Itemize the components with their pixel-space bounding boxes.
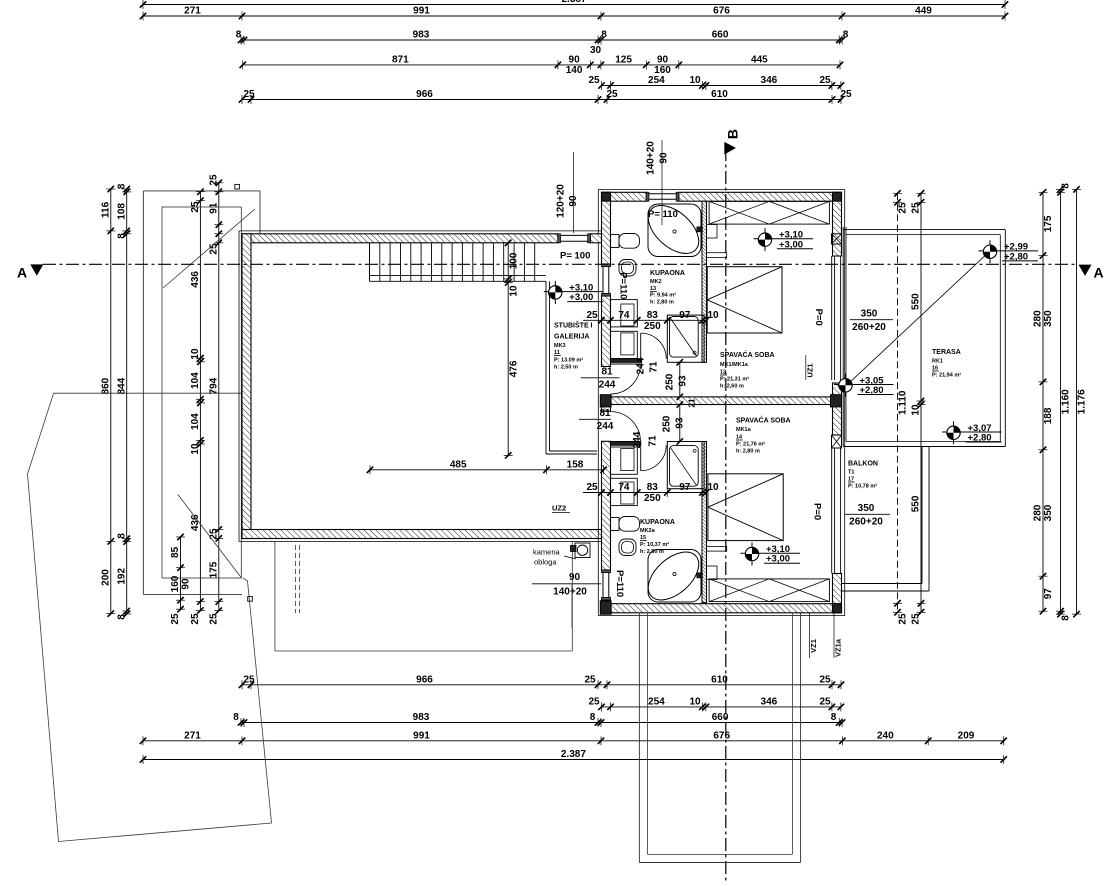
light fixture square xyxy=(575,543,590,558)
dresser lower xyxy=(707,566,718,580)
dim chain terrace 25/550/10/550/25 xyxy=(920,193,922,612)
hall dim lower 250/93 xyxy=(679,405,681,442)
svg-text:P= 100: P= 100 xyxy=(560,251,590,262)
svg-text:25: 25 xyxy=(208,174,219,186)
svg-text:UZ1: UZ1 xyxy=(806,363,815,377)
svg-text:445: 445 xyxy=(751,54,768,65)
svg-text:244: 244 xyxy=(599,380,616,391)
svg-text:280: 280 xyxy=(1033,504,1044,521)
cladding wing bottom xyxy=(598,615,844,617)
dim 485/158 xyxy=(370,469,604,471)
stone terrace outline xyxy=(274,541,276,651)
svg-text:25: 25 xyxy=(584,674,596,685)
svg-text:983: 983 xyxy=(413,30,430,41)
svg-text:+3,00: +3,00 xyxy=(766,554,790,565)
gallery top wall left part xyxy=(242,234,558,243)
gallery void edge xyxy=(545,281,547,454)
svg-text:188: 188 xyxy=(1043,407,1054,424)
svg-text:350: 350 xyxy=(1043,504,1054,521)
carport diagonal lower xyxy=(178,494,242,577)
svg-text:350: 350 xyxy=(861,309,878,320)
bathroom door lower (71) xyxy=(640,445,642,471)
svg-text:SPAVAĆA SOBA: SPAVAĆA SOBA xyxy=(736,416,791,425)
svg-text:71: 71 xyxy=(648,435,659,447)
svg-text:250: 250 xyxy=(665,373,676,390)
svg-text:346: 346 xyxy=(761,696,778,707)
UZ1 label xyxy=(805,355,807,380)
svg-text:93: 93 xyxy=(675,417,686,429)
svg-text:175: 175 xyxy=(208,561,219,578)
svg-text:250: 250 xyxy=(662,415,673,432)
svg-text:871: 871 xyxy=(392,54,409,65)
bathtub upper xyxy=(648,204,701,257)
svg-text:346: 346 xyxy=(761,75,778,86)
svg-text:25: 25 xyxy=(911,202,922,214)
svg-text:81: 81 xyxy=(599,408,611,419)
terrace inner xyxy=(846,234,1000,236)
svg-text:271: 271 xyxy=(184,6,201,17)
dresser upper xyxy=(707,225,718,239)
svg-text:116: 116 xyxy=(100,201,111,218)
svg-text:83: 83 xyxy=(647,482,659,493)
wing top wall left part xyxy=(602,192,647,201)
svg-text:10: 10 xyxy=(190,348,201,360)
svg-text:8: 8 xyxy=(1061,615,1072,621)
svg-text:30: 30 xyxy=(590,45,602,56)
svg-text:8: 8 xyxy=(116,614,127,620)
dim chain top row 25/966/25/610/25 xyxy=(242,99,841,101)
svg-text:25: 25 xyxy=(586,310,598,321)
svg-text:74: 74 xyxy=(618,482,630,493)
svg-text:25: 25 xyxy=(840,89,852,100)
svg-text:GALERIJA: GALERIJA xyxy=(554,334,589,341)
svg-text:10: 10 xyxy=(689,75,701,86)
party wall end block right xyxy=(831,395,842,407)
svg-text:158: 158 xyxy=(567,459,584,470)
svg-text:8: 8 xyxy=(843,30,849,41)
svg-text:1.176: 1.176 xyxy=(1077,389,1088,414)
svg-text:P: 21,94 m²: P: 21,94 m² xyxy=(932,372,961,379)
svg-text:TERASA: TERASA xyxy=(932,349,961,356)
svg-text:8: 8 xyxy=(116,233,127,239)
right wall glass door upper P=0 xyxy=(831,256,833,380)
svg-text:MK3: MK3 xyxy=(554,343,566,349)
elevation marker upper bedroom +3,10/+3,00 xyxy=(754,238,814,240)
svg-text:90: 90 xyxy=(569,54,581,65)
svg-text:P: 9,94 m²: P: 9,94 m² xyxy=(650,292,676,299)
svg-text:81: 81 xyxy=(601,367,613,378)
right wall crossed box lower xyxy=(832,435,842,448)
svg-text:254: 254 xyxy=(648,75,665,86)
bathtub lower xyxy=(648,550,701,603)
hall dim upper 250/93 xyxy=(679,362,681,397)
svg-text:P: 13.09 m²: P: 13.09 m² xyxy=(554,357,583,364)
svg-text:P: 21,76 m²: P: 21,76 m² xyxy=(736,441,765,448)
svg-text:90: 90 xyxy=(659,152,670,164)
svg-text:350: 350 xyxy=(1043,310,1054,327)
dim chain bottom row 8/983/8/660/8 xyxy=(241,722,842,724)
svg-text:25: 25 xyxy=(208,613,219,625)
elevation marker terrace top +2,99/+2,80 xyxy=(979,250,1039,252)
svg-text:h: 2,60 m: h: 2,60 m xyxy=(720,384,744,390)
svg-text:260+20: 260+20 xyxy=(852,322,886,333)
svg-text:8: 8 xyxy=(116,183,127,189)
svg-text:175: 175 xyxy=(1043,215,1054,232)
cladding wing right xyxy=(844,190,846,616)
svg-text:25: 25 xyxy=(819,696,831,707)
svg-text:991: 991 xyxy=(413,730,430,741)
svg-text:97: 97 xyxy=(679,482,691,493)
shower mixer square upper xyxy=(697,227,702,232)
wing bottom wall xyxy=(602,604,842,613)
svg-text:A: A xyxy=(17,264,27,280)
dim chain left 8/108/8/844/8/192/8 xyxy=(126,189,128,614)
svg-text:260+20: 260+20 xyxy=(849,517,883,528)
cladding wing left upper xyxy=(597,190,599,234)
dim chain top row 871/90/30/125/90/445 xyxy=(243,64,840,66)
svg-text:8: 8 xyxy=(601,30,607,41)
svg-text:10: 10 xyxy=(508,285,519,297)
svg-text:25: 25 xyxy=(586,482,598,493)
svg-text:8: 8 xyxy=(590,712,596,723)
wing left wall window lower P=110 xyxy=(602,570,604,600)
svg-text:25: 25 xyxy=(898,202,909,214)
driveway outer xyxy=(638,613,640,863)
svg-text:90: 90 xyxy=(657,54,669,65)
svg-text:25: 25 xyxy=(898,613,909,625)
wardrobe upper xyxy=(709,201,829,224)
svg-text:676: 676 xyxy=(713,6,730,17)
VZ1a label xyxy=(833,613,835,658)
svg-text:610: 610 xyxy=(711,89,728,100)
cladding line gallery top xyxy=(239,230,602,232)
dim chain bottom row 25/254/10/346/25 xyxy=(602,706,841,708)
dim chain bottom total 2.387 xyxy=(143,759,1004,761)
svg-text:A: A xyxy=(1094,265,1104,281)
svg-text:25: 25 xyxy=(606,89,618,100)
svg-text:+3,00: +3,00 xyxy=(569,292,593,303)
svg-text:P=0: P=0 xyxy=(811,503,822,520)
wing corner blocks xyxy=(602,192,611,201)
svg-text:8: 8 xyxy=(116,533,127,539)
svg-text:983: 983 xyxy=(413,712,430,723)
section marker A left xyxy=(30,264,43,275)
svg-text:794: 794 xyxy=(208,377,219,394)
svg-text:209: 209 xyxy=(958,730,975,741)
wing left wall window upper P=110 xyxy=(602,264,604,296)
svg-text:240: 240 xyxy=(877,730,894,741)
elevation marker terrace bottom +3,07/+2,80 xyxy=(942,431,1002,433)
wing top window xyxy=(646,193,679,195)
svg-text:100: 100 xyxy=(508,252,519,269)
svg-text:+2,80: +2,80 xyxy=(1004,251,1028,262)
dim chain right 175/350-280/188/350-280/97 xyxy=(1042,192,1044,611)
svg-text:1.160: 1.160 xyxy=(1061,389,1072,414)
svg-text:2.387: 2.387 xyxy=(561,749,586,760)
svg-text:436: 436 xyxy=(190,271,201,288)
section marker A right xyxy=(1079,265,1092,276)
svg-text:91: 91 xyxy=(208,202,219,214)
carport diagonal upper xyxy=(163,209,255,288)
survey marker square bottom xyxy=(248,597,253,602)
dim chain right 8/1.160/8 xyxy=(1060,189,1062,614)
site boundary xyxy=(28,394,272,842)
dim chain left 25/91/25/794/25/175/25 xyxy=(218,183,220,611)
dim chain bottom row 271/991/676/240/209 xyxy=(143,740,1004,742)
svg-text:90: 90 xyxy=(569,572,581,583)
svg-text:BALKON: BALKON xyxy=(848,461,878,468)
svg-text:83: 83 xyxy=(647,310,659,321)
shower upper xyxy=(667,315,704,362)
svg-text:550: 550 xyxy=(911,495,922,512)
svg-text:250: 250 xyxy=(644,493,661,504)
dim chain top total 2.387 xyxy=(143,4,1005,6)
svg-text:25: 25 xyxy=(819,674,831,685)
stair treads xyxy=(369,243,371,281)
gallery left wall xyxy=(242,234,251,539)
svg-text:991: 991 xyxy=(413,6,430,17)
svg-text:8: 8 xyxy=(236,30,242,41)
svg-text:10: 10 xyxy=(190,443,201,455)
svg-text:244: 244 xyxy=(632,431,643,448)
svg-text:25: 25 xyxy=(243,89,255,100)
svg-text:kamena: kamena xyxy=(533,548,561,557)
svg-text:h: 2,80 m: h: 2,80 m xyxy=(736,449,760,455)
cladding wing left lower (gallery east face) xyxy=(597,243,599,613)
lower bathroom dim 25/74/83/97/10 + 250 xyxy=(583,492,602,494)
svg-text:25: 25 xyxy=(208,528,219,540)
terrace diagonal xyxy=(847,251,991,385)
svg-text:71: 71 xyxy=(649,361,660,373)
svg-text:125: 125 xyxy=(615,54,632,65)
svg-text:UZ2: UZ2 xyxy=(552,504,566,513)
svg-text:280: 280 xyxy=(1033,310,1044,327)
entry door lower (81) xyxy=(611,441,641,443)
svg-text:85: 85 xyxy=(170,546,181,558)
bed lower xyxy=(708,474,783,541)
svg-text:1.110: 1.110 xyxy=(898,390,909,415)
bottom wall end block left xyxy=(600,601,611,614)
shower mixer square lower xyxy=(697,573,702,578)
cladding wing top xyxy=(598,189,844,191)
balcony edge xyxy=(921,447,923,584)
svg-text:KUPAONA: KUPAONA xyxy=(650,270,685,277)
gallery top wall right part xyxy=(590,234,601,243)
svg-text:966: 966 xyxy=(416,89,433,100)
cladding line gallery bottom xyxy=(239,540,602,542)
svg-text:25: 25 xyxy=(911,613,922,625)
svg-text:VZ1a: VZ1a xyxy=(834,638,843,657)
svg-text:25: 25 xyxy=(819,75,831,86)
svg-text:108: 108 xyxy=(116,203,127,220)
svg-text:MK1a: MK1a xyxy=(736,427,752,433)
svg-text:244: 244 xyxy=(597,421,614,432)
svg-text:8: 8 xyxy=(233,712,239,723)
lower bathroom north wall xyxy=(611,442,641,446)
VZ1 label xyxy=(809,613,811,658)
svg-text:250: 250 xyxy=(644,321,661,332)
dim chain top row 271/991/676/449 xyxy=(143,15,1005,17)
terrace outer xyxy=(843,229,1005,231)
section marker B flag xyxy=(724,142,736,155)
svg-text:485: 485 xyxy=(450,459,467,470)
svg-text:8: 8 xyxy=(831,712,837,723)
svg-text:860: 860 xyxy=(100,377,111,394)
shelf upper xyxy=(707,253,727,258)
svg-text:MK1/MK1a: MK1/MK1a xyxy=(720,362,749,368)
svg-text:VZ1: VZ1 xyxy=(809,639,818,653)
svg-text:h: 2,50 m: h: 2,50 m xyxy=(554,365,578,371)
svg-text:966: 966 xyxy=(416,674,433,685)
svg-text:SPAVAĆA SOBA: SPAVAĆA SOBA xyxy=(720,350,775,359)
sink lower xyxy=(619,539,636,556)
svg-text:+3,00: +3,00 xyxy=(779,239,803,250)
svg-text:P: 10,78 m²: P: 10,78 m² xyxy=(848,483,877,490)
bathroom door upper (71) xyxy=(640,333,642,359)
svg-text:KUPAONA: KUPAONA xyxy=(640,519,675,526)
wing top wall right part xyxy=(679,192,842,201)
dim chain right 1.176 xyxy=(1076,189,1078,614)
svg-text:10: 10 xyxy=(911,404,922,416)
svg-text:MK2a: MK2a xyxy=(640,528,656,534)
svg-text:10: 10 xyxy=(689,696,701,707)
svg-text:97: 97 xyxy=(1043,588,1054,600)
svg-text:STUBIŠTE I: STUBIŠTE I xyxy=(554,321,593,330)
gallery window P=100 xyxy=(558,234,590,236)
dim chain top row 8/983/8/660/8 xyxy=(241,39,842,41)
svg-text:140: 140 xyxy=(566,65,583,76)
partition lower bathroom xyxy=(702,442,707,603)
dim chain left 116/860/200 xyxy=(110,189,112,614)
driveway inner xyxy=(647,613,649,855)
svg-text:8: 8 xyxy=(1061,183,1072,189)
svg-text:192: 192 xyxy=(116,568,127,585)
carport mid line / site edge xyxy=(54,392,242,394)
elevation marker gallery +3,10/+3,00 xyxy=(544,291,604,293)
svg-text:P=0: P=0 xyxy=(813,309,824,326)
svg-text:P: 10,37 m²: P: 10,37 m² xyxy=(640,541,669,548)
counter lower 1 xyxy=(611,447,638,474)
dim chain left 25/436/10/104/104/10/436/25 xyxy=(199,192,201,611)
svg-text:844: 844 xyxy=(116,377,127,394)
toilet upper xyxy=(611,235,620,248)
svg-text:449: 449 xyxy=(915,6,932,17)
counter lower 2 xyxy=(611,478,638,505)
svg-text:271: 271 xyxy=(184,730,201,741)
svg-text:550: 550 xyxy=(911,293,922,310)
elevation marker terrace left +3,05/+2,80 xyxy=(834,384,894,386)
svg-text:200: 200 xyxy=(100,569,111,586)
svg-text:25: 25 xyxy=(243,674,255,685)
party wall xyxy=(611,397,833,405)
shelf lower xyxy=(707,546,727,551)
svg-text:660: 660 xyxy=(712,30,729,41)
svg-text:P= 110: P= 110 xyxy=(648,209,678,220)
cladding line gallery left xyxy=(238,231,240,542)
svg-text:P: 21,31 m²: P: 21,31 m² xyxy=(720,376,749,383)
svg-text:2.387: 2.387 xyxy=(561,0,586,5)
party wall end block left xyxy=(600,395,611,407)
svg-text:254: 254 xyxy=(648,696,665,707)
counter upper 2 xyxy=(611,331,638,358)
gallery bottom wall xyxy=(242,530,602,539)
stair width dim 100/10/476 xyxy=(507,243,509,456)
svg-text:120+20: 120+20 xyxy=(556,184,567,218)
svg-text:74: 74 xyxy=(618,310,630,321)
sink upper xyxy=(619,260,636,277)
svg-text:244: 244 xyxy=(636,357,647,374)
shower lower xyxy=(667,442,704,489)
entry door upper (81) xyxy=(611,363,641,365)
stair outline xyxy=(369,243,371,281)
svg-text:90: 90 xyxy=(181,578,192,590)
svg-text:RK1: RK1 xyxy=(932,359,943,365)
svg-text:93: 93 xyxy=(678,375,689,387)
svg-text:25: 25 xyxy=(170,613,181,625)
svg-text:10: 10 xyxy=(707,482,719,493)
carport outline xyxy=(143,190,260,192)
svg-text:104: 104 xyxy=(190,372,201,389)
dim chain bottom row 25/966/25/610/25 xyxy=(242,684,841,686)
dim chain top row 25/254/10/346/25 xyxy=(602,85,841,87)
partition upper bathroom xyxy=(702,201,707,362)
survey marker square top xyxy=(235,184,240,189)
section line B-B xyxy=(725,148,727,881)
svg-text:25: 25 xyxy=(190,613,201,625)
svg-text:350: 350 xyxy=(858,503,875,514)
wardrobe lower xyxy=(709,579,829,602)
svg-text:10: 10 xyxy=(707,310,719,321)
dashed drain lines xyxy=(295,545,297,613)
elevation marker lower bedroom +3,10/+3,00 xyxy=(741,552,801,554)
bed upper xyxy=(707,267,782,333)
upper bathroom dim 25/74/83/97/10 + 250 xyxy=(583,319,602,321)
wing left wall segments xyxy=(602,192,611,264)
svg-text:obloga: obloga xyxy=(534,558,557,567)
svg-text:T1: T1 xyxy=(848,470,854,476)
svg-text:140+20: 140+20 xyxy=(553,587,587,598)
dim chain terrace 25/1.110/25 (dashed) xyxy=(897,193,899,612)
svg-text:+2,80: +2,80 xyxy=(968,433,992,444)
svg-text:MK2: MK2 xyxy=(650,279,662,285)
svg-text:476: 476 xyxy=(508,360,519,377)
carport inner rect xyxy=(162,207,241,578)
right wall glass door lower P=0 xyxy=(831,448,833,574)
svg-text:h: 2,80 m: h: 2,80 m xyxy=(650,300,674,306)
svg-text:B: B xyxy=(725,129,741,139)
svg-text:+2,80: +2,80 xyxy=(860,385,884,396)
svg-text:140+20: 140+20 xyxy=(646,141,657,175)
svg-text:25: 25 xyxy=(588,696,600,707)
wing right wall segments xyxy=(833,192,842,256)
svg-text:21: 21 xyxy=(688,398,697,407)
counter upper 1 xyxy=(611,300,638,327)
section line A-A xyxy=(43,263,1078,265)
svg-text:104: 104 xyxy=(190,413,201,430)
dim chain left 85/90/25 xyxy=(180,537,182,609)
svg-text:676: 676 xyxy=(713,730,730,741)
toilet lower xyxy=(611,518,620,531)
svg-text:P=110: P=110 xyxy=(614,570,625,597)
right wall crossed box upper xyxy=(832,234,842,244)
svg-text:25: 25 xyxy=(588,75,600,86)
upper bathroom south wall xyxy=(611,359,641,363)
